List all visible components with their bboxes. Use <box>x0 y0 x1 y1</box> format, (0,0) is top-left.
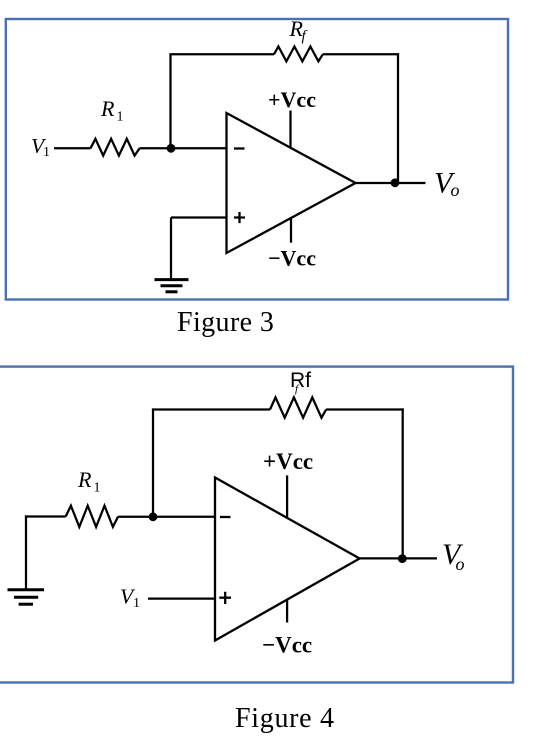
label R1 (Fig 3) <box>100 96 124 125</box>
resistor R1 (Fig 3) <box>91 139 140 156</box>
node: inverting input junction (Fig 4) <box>149 512 158 521</box>
wire: V1 lead to R1 (Fig 3) <box>54 147 91 149</box>
pin: non-inverting input plus sign (Fig 4) <box>219 592 231 604</box>
ground (Fig 4) <box>8 590 45 605</box>
wire: feedback drop to output (Fig 3) <box>397 53 399 182</box>
node: inverting input junction (Fig 3) <box>167 144 176 153</box>
svg-text:+Vcc: +Vcc <box>268 87 316 112</box>
pin: inverting input minus sign (Fig 4) <box>220 516 231 518</box>
wire: R1 to inverting input (Fig 4) <box>118 516 215 518</box>
wire: non-inverting input to ground (Fig 3) <box>170 218 172 280</box>
label V1 (Fig 4) <box>120 585 140 611</box>
wire: ground riser (Fig 4) <box>25 515 27 589</box>
op-amp U1 (Fig 3) <box>227 113 356 253</box>
wire: output (Fig 3) <box>356 182 426 184</box>
svg-text:1: 1 <box>117 110 124 125</box>
wire: feedback drop to output (Fig 4) <box>402 408 404 558</box>
wire: feedback top right segment (Fig 4) <box>326 408 404 410</box>
op-amp U2 (Fig 4) <box>215 478 360 641</box>
svg-text:o: o <box>451 180 460 200</box>
pin: inverting input minus sign (Fig 3) <box>234 147 245 149</box>
wire: ground to R1 (Fig 4) <box>25 515 66 517</box>
wire: feedback top right segment (Fig 3) <box>323 53 399 55</box>
node: output junction (Fig 4) <box>398 554 407 563</box>
label R1 (Fig 4) <box>77 467 101 496</box>
wire: non-inverting input (Fig 3) <box>171 216 227 218</box>
wire: -Vcc supply (Fig 3) <box>290 219 292 243</box>
resistor Rf (Fig 4) <box>270 397 326 417</box>
resistor R1 (Fig 4) <box>66 506 118 527</box>
label Rf (Fig 4) <box>290 369 311 395</box>
wire: +Vcc supply (Fig 4) <box>286 475 288 518</box>
wire: feedback riser from junction (Fig 3) <box>169 54 171 148</box>
svg-text:f: f <box>302 28 308 44</box>
svg-text:−Vcc: −Vcc <box>262 633 312 658</box>
wire: V1 to non-inverting input (Fig 4) <box>148 597 215 599</box>
wire: -Vcc supply (Fig 4) <box>286 600 288 623</box>
label Vo (Fig 3) <box>434 167 460 200</box>
svg-text:+Vcc: +Vcc <box>263 449 313 474</box>
pin: non-inverting input plus sign (Fig 3) <box>234 212 245 223</box>
label Vo (Fig 4) <box>442 538 465 574</box>
node: output junction (Fig 3) <box>391 178 400 187</box>
svg-text:Figure 3: Figure 3 <box>177 307 274 338</box>
svg-text:1: 1 <box>94 481 101 496</box>
wire: feedback riser from junction (Fig 4) <box>152 410 154 517</box>
svg-text:Figure 4: Figure 4 <box>235 703 335 734</box>
label V1 (Fig 3) <box>31 134 50 160</box>
ground (Fig 3) <box>155 280 189 292</box>
svg-text:1: 1 <box>43 145 50 160</box>
svg-text:−Vcc: −Vcc <box>268 246 316 271</box>
wire: R1 to inverting input (Fig 3) <box>140 147 227 149</box>
svg-text:o: o <box>456 554 465 574</box>
svg-text:R: R <box>77 467 92 492</box>
wire: output (Fig 4) <box>360 557 437 559</box>
wire: +Vcc supply (Fig 3) <box>289 111 291 148</box>
wire: feedback top left segment (Fig 3) <box>169 53 274 55</box>
svg-text:Rf: Rf <box>290 369 311 392</box>
wire: feedback top left segment (Fig 4) <box>152 408 270 410</box>
resistor Rf (Fig 3) <box>274 47 323 62</box>
svg-text:1: 1 <box>133 596 140 611</box>
label Rf (Fig 3) <box>289 16 308 45</box>
svg-text:R: R <box>100 96 115 121</box>
